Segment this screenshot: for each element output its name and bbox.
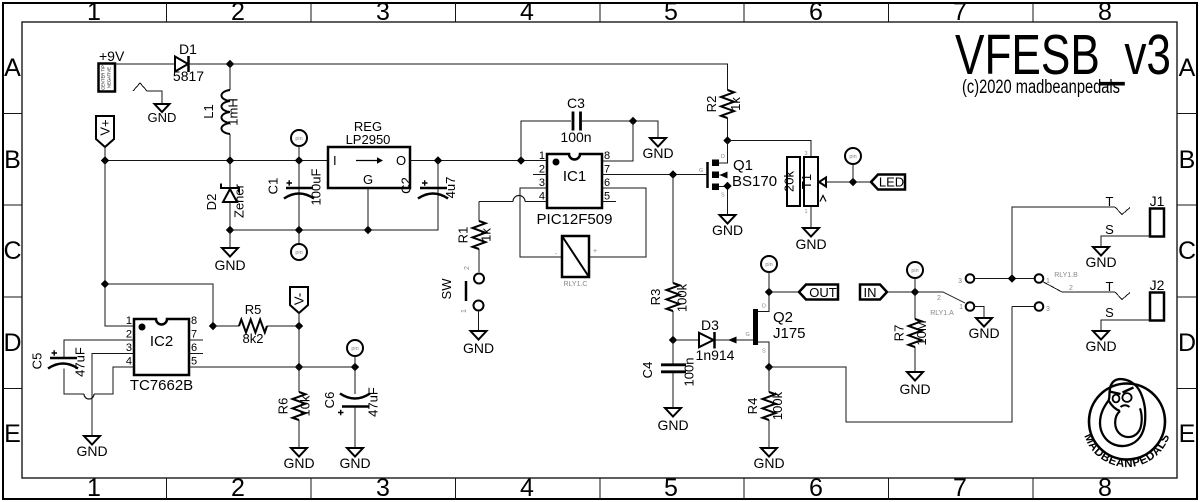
svg-text:T: T — [1106, 194, 1114, 209]
svg-text:S: S — [721, 193, 725, 199]
svg-text:I: I — [333, 153, 337, 168]
wire IC2 pin5 row — [189, 366, 355, 368]
svg-text:D: D — [1178, 329, 1196, 357]
pin pad P2 — [291, 230, 307, 260]
svg-text:100k: 100k — [675, 283, 690, 312]
resistor R7 10M — [892, 292, 930, 372]
node IN tag — [860, 285, 887, 301]
trimmer T1 20k — [782, 151, 827, 215]
svg-text:R2: R2 — [704, 96, 719, 113]
junction L1 bottom — [226, 156, 234, 164]
wire IC2 pin3 to GND — [92, 354, 134, 437]
node V+ tag — [96, 116, 114, 161]
svg-text:E: E — [4, 420, 21, 448]
node OUT tag — [799, 285, 838, 301]
wire Q1 drain to T1 — [728, 141, 812, 158]
battery BT1 +9V — [99, 48, 125, 92]
svg-text:RLY1.A: RLY1.A — [930, 310, 954, 317]
resistor R5 8k2 — [213, 302, 299, 346]
svg-text:pin: pin — [911, 268, 918, 274]
wire IN to node — [887, 291, 915, 293]
svg-text:1: 1 — [1046, 278, 1050, 285]
svg-text:5: 5 — [191, 356, 197, 368]
node LED tag — [871, 175, 905, 190]
svg-text:Q1: Q1 — [733, 157, 753, 174]
resistor R3 100k — [648, 175, 690, 341]
pin pad P5 — [907, 262, 923, 292]
svg-text:pin: pin — [849, 154, 856, 160]
ground Q1 — [712, 215, 743, 238]
svg-text:IC2: IC2 — [150, 333, 173, 350]
svg-text:3: 3 — [376, 474, 390, 502]
svg-text:C1: C1 — [266, 178, 281, 195]
pin pad P1 — [291, 130, 307, 161]
svg-text:8: 8 — [604, 150, 610, 162]
svg-text:8: 8 — [1098, 474, 1112, 502]
pin pad P3 — [845, 148, 861, 182]
wire V+ branch to IC2 pin8 — [105, 284, 213, 326]
svg-text:R3: R3 — [648, 289, 663, 306]
logo madbeanpedals — [1081, 379, 1172, 470]
junction pin7 R3 — [669, 170, 677, 178]
svg-text:GND: GND — [283, 455, 314, 471]
svg-text:A: A — [4, 54, 21, 82]
ground IC2 — [76, 436, 107, 459]
svg-text:4: 4 — [126, 356, 132, 368]
svg-text:RLY1.B: RLY1.B — [1054, 272, 1078, 279]
svg-text:IN: IN — [864, 285, 877, 300]
svg-text:LP2950: LP2950 — [346, 132, 391, 147]
svg-text:8k2: 8k2 — [243, 331, 264, 346]
regulator REG LP2950 — [328, 119, 410, 188]
svg-text:C5: C5 — [30, 353, 45, 370]
svg-text:2: 2 — [1069, 285, 1073, 292]
ground R7 — [899, 372, 930, 397]
svg-text:7: 7 — [604, 164, 610, 176]
svg-text:+9V: +9V — [99, 48, 125, 64]
wire V+ rail row B — [105, 160, 328, 162]
svg-text:1k: 1k — [479, 228, 494, 242]
op-amp IC1 PIC12F509 — [537, 150, 613, 228]
ground C4 — [657, 408, 688, 433]
svg-text:GND: GND — [968, 325, 999, 341]
wire IC1 pin3 to relay coil — [520, 188, 562, 257]
svg-text:5: 5 — [664, 474, 678, 502]
pin pad P4 — [761, 256, 777, 292]
junction C1 top — [295, 156, 303, 164]
svg-text:3: 3 — [376, 0, 390, 26]
junction R5 right — [295, 322, 303, 330]
svg-text:1: 1 — [126, 315, 132, 327]
pin 7 stub IC2 — [189, 339, 203, 341]
junction C2 top — [434, 156, 442, 164]
svg-text:GND: GND — [657, 417, 688, 433]
junction IN node — [911, 288, 919, 296]
svg-text:S: S — [1105, 305, 1114, 320]
svg-text:R6: R6 — [276, 398, 291, 415]
svg-text:C6: C6 — [322, 392, 337, 409]
svg-text:GND: GND — [1085, 338, 1116, 354]
svg-text:2: 2 — [937, 295, 941, 302]
svg-text:20k: 20k — [782, 171, 797, 192]
svg-text:6: 6 — [604, 177, 610, 189]
svg-text:1: 1 — [959, 304, 963, 311]
svg-text:D: D — [762, 304, 766, 310]
wire T1 wiper to LED — [826, 181, 871, 183]
capacitor C6 47uF — [322, 367, 381, 448]
title VFESB_v3 — [955, 23, 1171, 98]
resistor R4 100k — [745, 367, 785, 448]
ground SW — [463, 311, 494, 356]
svg-text:pin: pin — [765, 262, 772, 268]
svg-text:C: C — [1178, 237, 1196, 265]
svg-text:G: G — [699, 168, 703, 174]
jack J1 — [1101, 193, 1165, 247]
wire to C3 left — [521, 121, 571, 161]
junction pin1 net — [517, 156, 525, 164]
svg-text:B: B — [4, 146, 21, 174]
diode D3 1n914 — [673, 317, 735, 363]
svg-text:pin: pin — [295, 136, 302, 142]
svg-text:3: 3 — [804, 151, 807, 157]
svg-text:RLY1.C: RLY1.C — [564, 281, 588, 288]
svg-text:4: 4 — [539, 191, 545, 203]
svg-text:Zener: Zener — [232, 183, 247, 218]
svg-text:2: 2 — [231, 474, 245, 502]
svg-text:+: + — [593, 248, 597, 255]
svg-text:2: 2 — [464, 266, 471, 270]
svg-text:3: 3 — [126, 342, 132, 354]
relay contact RLY1.B — [1035, 272, 1115, 313]
svg-text:8: 8 — [191, 315, 197, 327]
pin 2 stub IC1 — [533, 174, 547, 176]
wire battery to D1 — [115, 63, 175, 65]
svg-text:4: 4 — [520, 0, 534, 26]
svg-text:CENTER TIP: CENTER TIP — [101, 65, 106, 90]
ground C3 — [642, 138, 673, 161]
junction relay node — [1008, 274, 1016, 282]
wire REG output row B — [410, 160, 547, 162]
diode D1 5817 — [173, 41, 204, 84]
svg-text:E: E — [1179, 420, 1196, 448]
svg-text:D1: D1 — [179, 41, 197, 57]
svg-text:V-: V- — [292, 293, 307, 305]
wire V+ down to IC2 — [105, 161, 134, 327]
wire battery negative — [133, 83, 162, 104]
svg-text:47uF: 47uF — [73, 347, 88, 377]
transistor Q2 J175 — [715, 292, 806, 367]
wire RLY1.A common to GND — [975, 307, 985, 319]
resistor R1 1k — [456, 202, 494, 273]
svg-text:LED: LED — [879, 175, 904, 190]
svg-text:A: A — [1179, 54, 1196, 82]
junction R6 top — [295, 363, 303, 371]
resistor R2 1k — [704, 90, 743, 141]
jack J2 — [1101, 277, 1165, 331]
svg-text:T: T — [1106, 279, 1114, 294]
svg-text:SW: SW — [439, 278, 454, 300]
ground J1 — [1085, 247, 1116, 270]
capacitor C2 4u7 — [399, 161, 459, 199]
svg-text:2: 2 — [126, 329, 132, 341]
junction V+ left — [101, 156, 109, 164]
wire C3 right — [582, 121, 658, 138]
ground D2 — [214, 230, 245, 273]
op-amp IC2 TC7662B — [126, 315, 197, 394]
wire IC2 pin2 to C5 — [64, 340, 134, 357]
junction R3 bottom — [669, 336, 677, 344]
svg-text:100n: 100n — [560, 129, 591, 145]
svg-text:100n: 100n — [682, 358, 697, 387]
svg-text:OUT: OUT — [809, 285, 837, 300]
relay coil RLY1.C — [555, 236, 597, 288]
pin pad P6 — [347, 340, 363, 367]
wire to OUT — [769, 291, 799, 293]
svg-text:R4: R4 — [745, 398, 760, 415]
svg-text:(c)2020 madbeanpedals: (c)2020 madbeanpedals — [962, 77, 1120, 98]
junction Q1 source — [723, 182, 731, 190]
svg-text:4u7: 4u7 — [443, 177, 458, 199]
svg-text:GND: GND — [148, 110, 177, 125]
capacitor C1 100uF — [266, 161, 324, 231]
svg-text:G: G — [363, 172, 373, 187]
svg-text:S: S — [762, 349, 766, 355]
junction C3 right — [629, 117, 637, 125]
svg-text:D2: D2 — [204, 194, 219, 211]
svg-text:C2: C2 — [399, 177, 414, 194]
svg-text:BS170: BS170 — [732, 173, 777, 190]
ground RLY1.A — [968, 318, 999, 341]
svg-text:IC1: IC1 — [563, 168, 586, 185]
svg-text:7: 7 — [953, 474, 967, 502]
junction Q2 source node — [765, 363, 773, 371]
junction C6 top — [351, 363, 359, 371]
ground battery — [148, 104, 177, 125]
wire C3 node to IC1 pin8 — [602, 121, 633, 161]
svg-text:3: 3 — [958, 278, 962, 285]
junction G — [364, 226, 372, 234]
svg-text:1: 1 — [539, 150, 545, 162]
wire node to J1 tip — [1012, 207, 1115, 279]
svg-text:1k: 1k — [728, 97, 743, 111]
svg-text:47uF: 47uF — [366, 387, 381, 417]
svg-text:3: 3 — [539, 177, 545, 189]
wire GND rail bottom of C1 C2 — [230, 198, 438, 230]
svg-text:J1: J1 — [1150, 193, 1165, 209]
svg-text:GND: GND — [463, 340, 494, 356]
svg-text:2: 2 — [231, 0, 245, 26]
ground J2 — [1085, 331, 1116, 354]
transistor Q1 BS170 — [699, 141, 777, 216]
ground C6 — [339, 448, 370, 471]
wire D1 to node — [189, 63, 230, 65]
svg-text:6: 6 — [191, 342, 197, 354]
svg-text:T1: T1 — [799, 174, 814, 189]
ground R6 — [283, 448, 314, 471]
svg-text:B: B — [1179, 146, 1196, 174]
svg-text:5: 5 — [664, 0, 678, 26]
svg-text:100k: 100k — [770, 391, 785, 420]
svg-text:1: 1 — [461, 309, 468, 313]
junction R2 bottom — [723, 136, 731, 144]
switch SW — [439, 266, 484, 313]
inductor L1 1mH — [201, 64, 241, 160]
svg-text:GND: GND — [76, 443, 107, 459]
wire node to R2 — [230, 64, 728, 90]
node V- tag — [290, 287, 308, 313]
svg-text:S: S — [1105, 222, 1114, 237]
pin 6 stub IC2 — [189, 353, 203, 355]
svg-text:5: 5 — [604, 191, 610, 203]
svg-text:100uF: 100uF — [309, 169, 324, 206]
svg-text:O: O — [396, 153, 406, 168]
svg-text:pin: pin — [351, 346, 358, 352]
junction D2 bottom — [226, 226, 234, 234]
wire RLY1.A no to node — [975, 278, 1035, 280]
svg-text:C3: C3 — [567, 95, 585, 111]
svg-text:PIC12F509: PIC12F509 — [537, 211, 613, 228]
zener diode D2 — [204, 161, 247, 231]
svg-text:R1: R1 — [456, 227, 471, 244]
wire V- down — [298, 313, 300, 367]
ground T1 — [795, 206, 826, 252]
svg-text:6: 6 — [809, 474, 823, 502]
capacitor C5 47uF — [30, 347, 88, 377]
relay contact RLY1.A — [915, 274, 974, 317]
svg-text:1: 1 — [87, 0, 101, 26]
svg-text:D: D — [3, 329, 21, 357]
svg-text:NEGATIVE: NEGATIVE — [107, 67, 112, 88]
svg-text:GND: GND — [753, 455, 784, 471]
pin 5 stub IC1 — [602, 201, 616, 203]
svg-text:J2: J2 — [1150, 277, 1165, 293]
resistor R6 10k — [276, 367, 313, 448]
ground R4 — [753, 448, 784, 471]
svg-text:3: 3 — [1046, 306, 1050, 313]
wire Q2 source to relay B3 — [769, 307, 1012, 423]
junction C1 bottom — [295, 226, 303, 234]
wire IC1 pin7 to Q1 gate — [602, 174, 707, 176]
wire C5 to IC2 pin4 — [64, 367, 134, 399]
svg-text:1: 1 — [804, 209, 807, 215]
svg-text:R7: R7 — [892, 325, 907, 342]
junction Q2 drain node — [765, 288, 773, 296]
svg-text:6: 6 — [809, 0, 823, 26]
svg-text:1: 1 — [87, 474, 101, 502]
svg-text:GND: GND — [642, 145, 673, 161]
svg-text:2: 2 — [539, 164, 545, 176]
svg-text:L1: L1 — [201, 104, 216, 118]
svg-text:5817: 5817 — [173, 68, 204, 84]
svg-text:J175: J175 — [773, 325, 806, 342]
svg-text:R5: R5 — [245, 302, 262, 317]
junction V+ branch — [101, 280, 109, 288]
svg-text:10M: 10M — [914, 320, 929, 345]
svg-text:TC7662B: TC7662B — [130, 377, 193, 394]
svg-text:GND: GND — [214, 257, 245, 273]
junction LED wire — [849, 178, 857, 186]
svg-text:C: C — [3, 237, 21, 265]
svg-text:GND: GND — [899, 381, 930, 397]
junction V+ top — [226, 60, 234, 68]
svg-text:7: 7 — [191, 329, 197, 341]
svg-text:GND: GND — [1085, 254, 1116, 270]
svg-text:V+: V+ — [98, 119, 113, 135]
wire IC1 pin4 to R1 — [479, 196, 547, 202]
svg-text:10k: 10k — [298, 395, 313, 416]
svg-text:Q2: Q2 — [773, 309, 793, 326]
svg-text:C4: C4 — [640, 362, 655, 379]
svg-text:D: D — [721, 154, 725, 160]
svg-text:GND: GND — [795, 236, 826, 252]
svg-text:GND: GND — [712, 222, 743, 238]
svg-text:4: 4 — [520, 474, 534, 502]
wire IC1 pin6 to relay coil — [589, 188, 646, 257]
svg-text:1n914: 1n914 — [696, 347, 735, 363]
svg-text:D3: D3 — [701, 317, 719, 333]
svg-text:1mH: 1mH — [226, 98, 241, 125]
wire REG G to rail — [367, 188, 369, 230]
junction IC2 pin8 — [209, 322, 217, 330]
capacitor C4 100n — [640, 340, 697, 408]
svg-text:G: G — [746, 332, 750, 338]
svg-text:pin: pin — [295, 250, 302, 256]
svg-text:GND: GND — [339, 455, 370, 471]
capacitor C3 100n — [560, 95, 591, 145]
wire RLY1.B nc — [1012, 306, 1035, 308]
